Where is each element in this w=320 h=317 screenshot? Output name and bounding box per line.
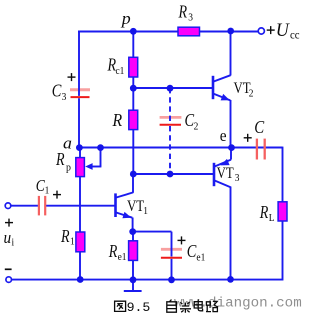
caption glyph 自 xyxy=(167,300,177,313)
svg-text:L: L xyxy=(269,213,275,225)
caption glyph 图 xyxy=(115,301,126,311)
capacitor C1 right plate xyxy=(44,196,46,216)
junction dot at Ucc rail / VT2 collector xyxy=(227,28,234,35)
caption glyph 路 xyxy=(206,301,218,311)
junction dot C2 top xyxy=(167,85,174,92)
wire Re1 to bottom rail xyxy=(132,260,134,280)
svg-text:C: C xyxy=(254,118,264,137)
junction dot VT1 collector / R / VT3 base xyxy=(130,171,137,178)
capacitor C3 positive plate xyxy=(70,88,90,91)
transistor VT2 emitter leg xyxy=(213,94,230,101)
resistor Re1 xyxy=(129,241,138,261)
svg-text:cc: cc xyxy=(290,29,300,42)
wire top rail right (R3 to +Ucc terminal) xyxy=(200,31,259,33)
transistor VT3 emitter arrowhead (PNP) xyxy=(220,159,229,166)
resistor RL xyxy=(278,202,287,221)
wire C1 to VT1 base xyxy=(46,205,115,207)
transistor VT2 base bar xyxy=(212,76,215,99)
caption glyph 电 xyxy=(194,299,202,310)
transistor VT1 emitter leg xyxy=(116,212,133,217)
svg-text:3: 3 xyxy=(235,173,240,185)
junction dot Rp wiper tap xyxy=(97,144,104,151)
junction dot VT1 emitter xyxy=(129,228,136,235)
wire VT1 emitter vertical xyxy=(132,218,134,232)
svg-text:2: 2 xyxy=(249,88,254,100)
capacitor C right plate xyxy=(264,139,266,160)
capacitor C1 left plate xyxy=(38,196,40,216)
svg-text:3: 3 xyxy=(188,12,193,24)
wire Ce1 top lead xyxy=(171,232,173,257)
svg-text:R: R xyxy=(55,151,65,170)
node e junction dot xyxy=(228,144,235,151)
wire p to Rc1 xyxy=(132,32,134,59)
wire output node e to capacitor C xyxy=(232,147,283,149)
svg-text:VT: VT xyxy=(127,198,144,216)
node p junction dot xyxy=(130,28,137,35)
resistor R1 xyxy=(76,232,85,252)
svg-text:9.5: 9.5 xyxy=(127,300,151,315)
svg-text:e: e xyxy=(220,127,227,145)
svg-text:R: R xyxy=(259,203,269,222)
transistor VT2 collector leg xyxy=(213,75,230,81)
wire R1 to bottom rail xyxy=(79,251,81,280)
svg-text:p: p xyxy=(120,9,131,29)
junction dot Rc1-R-VT2 base xyxy=(130,85,137,92)
junction dot R1 - bottom rail xyxy=(77,276,84,283)
resistor R xyxy=(129,110,138,129)
svg-text:e1: e1 xyxy=(118,252,127,264)
svg-text:i: i xyxy=(12,237,15,249)
input terminal - (open circle) xyxy=(6,277,12,283)
svg-text:1: 1 xyxy=(45,185,50,197)
junction dot Re1/ground - bottom rail xyxy=(130,276,137,283)
junction dot VT3 collector - bottom rail xyxy=(227,276,234,283)
input terminal + (open circle) xyxy=(5,203,11,209)
potentiometer Rp wiper arrowhead xyxy=(85,163,92,170)
wire VT1 emitter node to Ce1 xyxy=(133,231,172,233)
resistor Rc1 xyxy=(129,57,138,77)
node a junction dot xyxy=(76,144,83,151)
transistor VT2 emitter arrowhead xyxy=(221,94,230,101)
wire C2 dashed top lead xyxy=(169,88,171,124)
svg-text:a: a xyxy=(63,133,72,153)
svg-text:p: p xyxy=(66,162,71,174)
polarity + of Ce1 xyxy=(178,239,186,241)
wire bottom rail xyxy=(11,279,282,281)
wire VT2 emitter to node e xyxy=(230,100,232,148)
wire R bottom to VT1 collector junction xyxy=(132,129,134,175)
wire RL to bottom rail xyxy=(282,220,284,281)
svg-text:u: u xyxy=(4,229,12,247)
polarity + of C xyxy=(244,137,252,139)
capacitor C2 top plate xyxy=(160,116,182,119)
wire C3 branch lower (C3 down to node a) xyxy=(78,98,80,147)
capacitor Ce1 negative plate xyxy=(161,257,182,259)
svg-text:2: 2 xyxy=(194,121,199,133)
svg-text:e1: e1 xyxy=(196,252,205,264)
capacitor C2 bottom plate xyxy=(160,124,181,126)
wire node a to node e xyxy=(78,147,232,149)
ground xyxy=(132,280,134,291)
potentiometer Rp wiper arm xyxy=(100,148,102,167)
capacitor C3 negative plate xyxy=(71,96,90,98)
+Ucc supply terminal (open circle) xyxy=(258,28,264,34)
wire node a to Rp xyxy=(79,148,81,159)
transistor VT1 collector leg xyxy=(116,192,133,197)
wire Rp to R1 (crosses VT1 base wire) xyxy=(79,176,81,234)
capacitor C left plate xyxy=(256,139,258,160)
junction dot C2 bottom xyxy=(167,171,174,178)
polarity + of C3 xyxy=(68,76,76,78)
svg-text:c1: c1 xyxy=(116,65,125,77)
svg-text:R: R xyxy=(60,228,70,247)
resistor R3 xyxy=(178,27,200,36)
capacitor Ce1 positive plate xyxy=(161,248,182,251)
transistor VT3 collector leg xyxy=(214,180,230,187)
input label + xyxy=(5,222,13,224)
svg-text:VT: VT xyxy=(217,165,234,183)
svg-text:R: R xyxy=(178,3,188,22)
svg-text:1: 1 xyxy=(143,206,148,218)
svg-text:3: 3 xyxy=(62,92,67,104)
input label - xyxy=(5,268,12,270)
supply label +Ucc xyxy=(267,29,275,31)
wire VT1 emitter node to Re1 xyxy=(132,232,134,242)
junction dot Ce1 - bottom rail xyxy=(168,276,175,283)
svg-text:www.diangon.com: www.diangon.com xyxy=(174,296,302,312)
svg-text:1: 1 xyxy=(70,236,75,248)
wire VT1 collector vertical xyxy=(132,174,134,193)
wire VT2 collector to Ucc rail xyxy=(230,32,232,76)
wire input terminal to C1 xyxy=(11,205,39,207)
transistor VT3 emitter leg xyxy=(230,148,232,160)
wire Rc1 to R (through VT2 base junction) xyxy=(132,76,134,111)
wire VT3 base xyxy=(133,173,213,175)
wire C3 branch upper (top rail down to C3) xyxy=(78,31,80,96)
wire right branch down to RL xyxy=(282,147,284,203)
wire VT3 collector to bottom rail xyxy=(230,187,232,280)
wire Ce1 bottom lead xyxy=(171,259,173,280)
wire top rail left (p to R3) xyxy=(78,31,179,33)
polarity + of C1 xyxy=(53,194,61,196)
caption glyph 举 xyxy=(180,302,191,313)
svg-text:R: R xyxy=(112,110,123,130)
transistor VT1 base bar xyxy=(114,193,117,217)
svg-text:R: R xyxy=(108,243,118,262)
wire VT2 base xyxy=(133,87,212,89)
svg-text:U: U xyxy=(276,20,291,42)
transistor VT3 base bar xyxy=(213,163,216,186)
wire C2 dashed bottom lead (to VT3 base wire) xyxy=(169,126,171,174)
potentiometer Rp body xyxy=(76,158,85,177)
transistor VT1 emitter arrowhead xyxy=(122,212,131,218)
